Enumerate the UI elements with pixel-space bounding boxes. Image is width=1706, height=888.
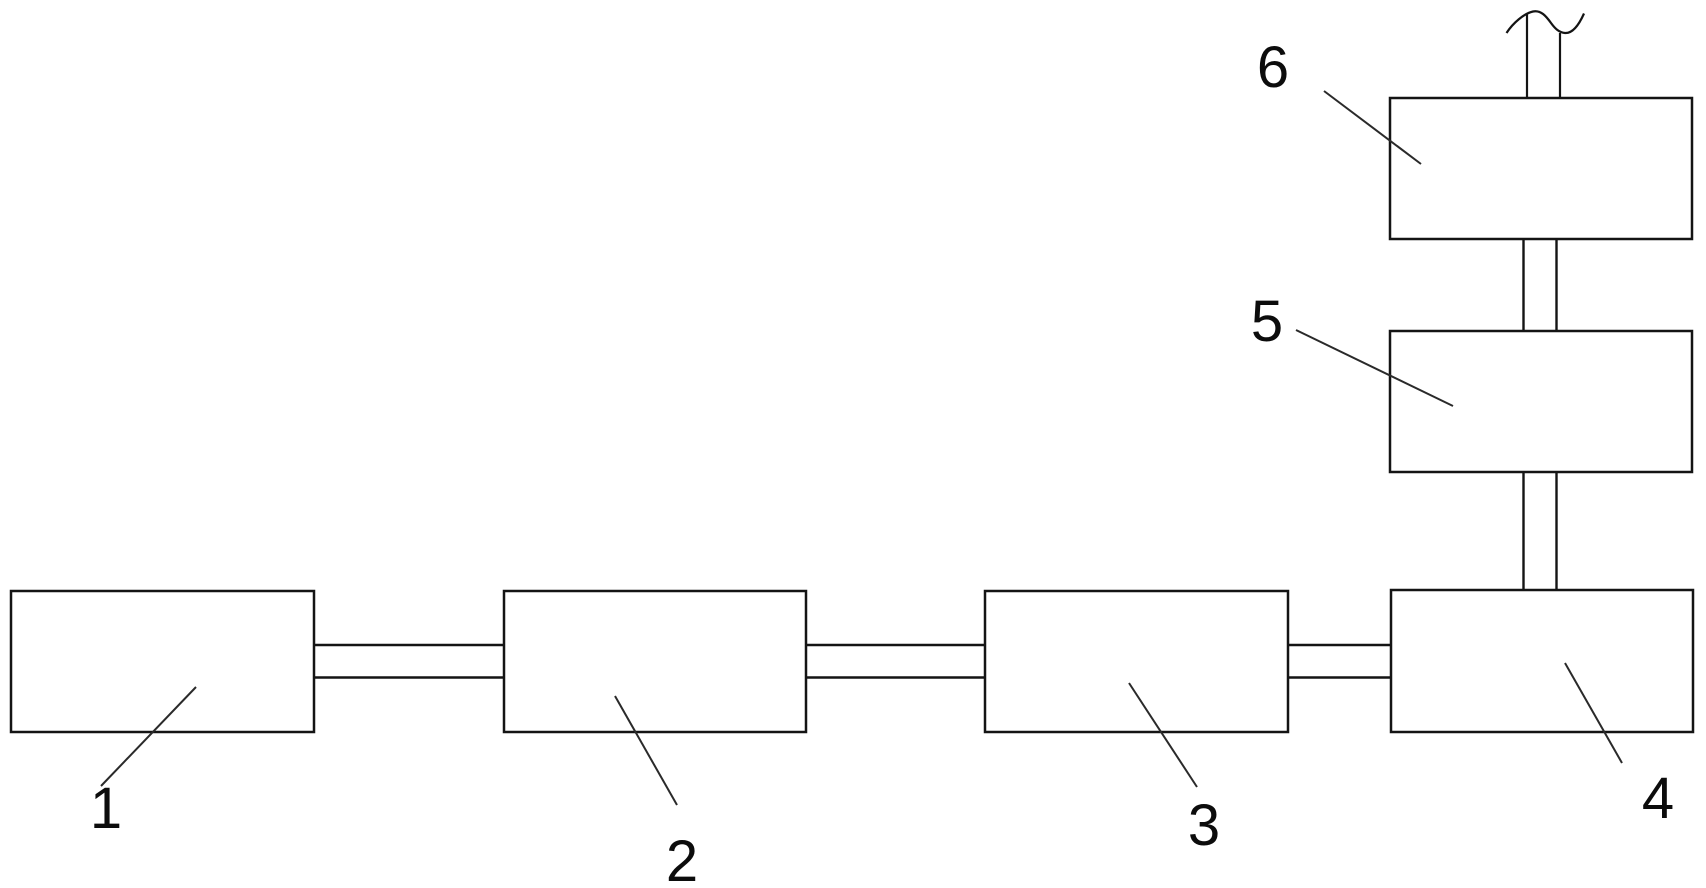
leader line for label 3 xyxy=(1129,683,1197,787)
block 1 xyxy=(11,591,314,732)
wire: vertical connector between block 5 and block 6 xyxy=(1524,239,1557,331)
leader line for label 6 xyxy=(1324,91,1421,164)
block 5 xyxy=(1390,331,1692,472)
svg-text:5: 5 xyxy=(1251,289,1283,354)
svg-text:3: 3 xyxy=(1188,793,1220,858)
leader line for label 1 xyxy=(101,687,196,786)
leader line for label 5 xyxy=(1296,330,1453,406)
block 3 xyxy=(985,591,1288,732)
wire: vertical connector between block 4 and block 5 xyxy=(1524,472,1557,590)
svg-text:6: 6 xyxy=(1257,35,1289,100)
svg-text:2: 2 xyxy=(666,829,698,888)
svg-text:1: 1 xyxy=(90,776,122,841)
wire: connector between block 1 and block 2 xyxy=(314,645,504,678)
leader line for label 4 xyxy=(1565,663,1622,763)
block 6 xyxy=(1390,98,1692,239)
wire: connector between block 3 and block 4 xyxy=(1288,645,1391,678)
svg-text:4: 4 xyxy=(1642,766,1674,831)
block 4 xyxy=(1391,590,1693,732)
wire: connector between block 2 and block 3 xyxy=(806,645,985,678)
block 2 xyxy=(504,591,806,732)
wire: output stub above block 6 with wavy break xyxy=(1507,11,1585,99)
leader line for label 2 xyxy=(615,696,677,805)
